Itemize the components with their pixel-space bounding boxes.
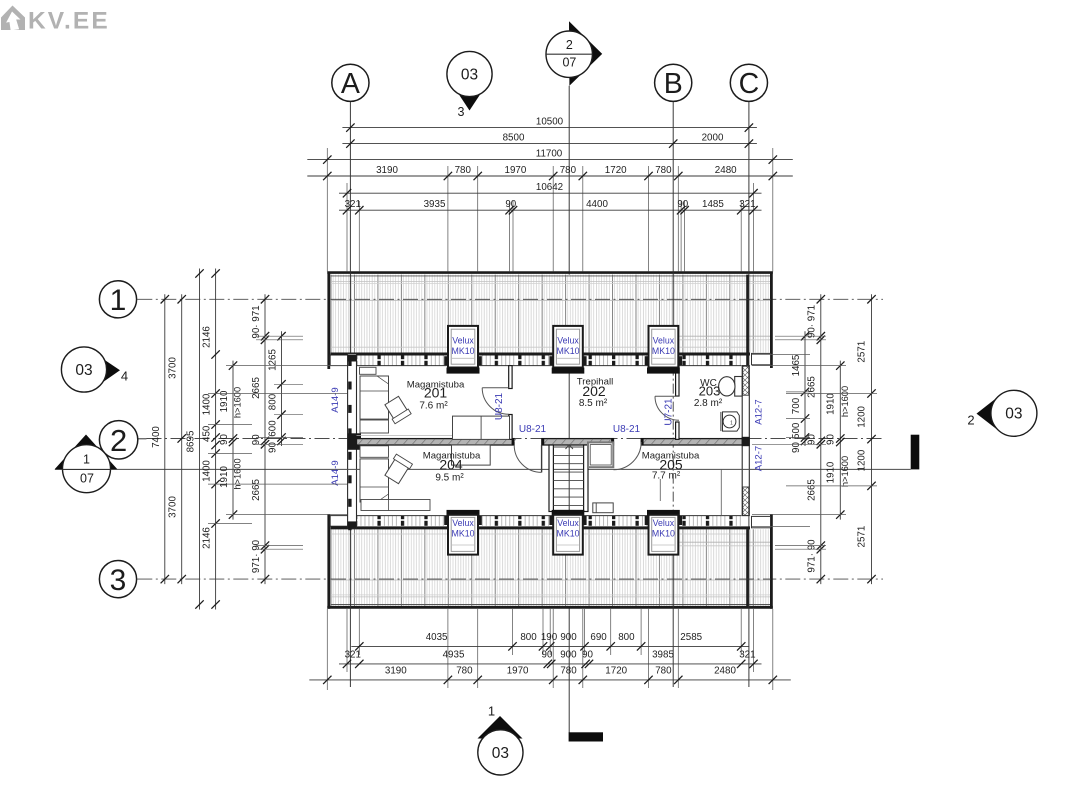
svg-text:3: 3 [110, 564, 127, 597]
right horizontal stubs [775, 335, 826, 337]
svg-text:1970: 1970 [505, 165, 527, 176]
svg-text:7.7 m²: 7.7 m² [652, 471, 681, 482]
svg-text:2571: 2571 [857, 341, 868, 363]
svg-text:690: 690 [590, 632, 607, 643]
svg-text:4935: 4935 [443, 650, 465, 661]
room201 desk [360, 420, 389, 433]
svg-text:90: 90 [268, 442, 279, 453]
grid row line 2 [147, 438, 884, 440]
svg-text:90· 971: 90· 971 [251, 305, 262, 338]
svg-text:204: 204 [439, 457, 463, 473]
svg-text:2571: 2571 [857, 526, 868, 548]
bottom roof band hatch [330, 529, 770, 606]
svg-text:8695: 8695 [186, 430, 197, 452]
left wall top/bottom junction blocks [348, 355, 357, 362]
svg-text:A14-9: A14-9 [330, 460, 341, 485]
left chain fine top [215, 269, 217, 610]
svg-text:780: 780 [655, 666, 672, 677]
svg-text:1400: 1400 [202, 393, 213, 415]
svg-text:Velux: Velux [452, 336, 474, 346]
svg-text:90· 971: 90· 971 [807, 305, 818, 338]
svg-text:780: 780 [655, 165, 672, 176]
grid row line 1 over band [331, 298, 771, 300]
svg-text:800: 800 [520, 632, 537, 643]
svg-text:2: 2 [967, 413, 974, 428]
svg-text:1: 1 [83, 453, 90, 467]
svg-text:3700: 3700 [168, 496, 179, 518]
middle wall hatch [358, 439, 363, 445]
svg-text:8500: 8500 [503, 132, 525, 143]
svg-text:1910: 1910 [219, 466, 230, 488]
svg-text:3190: 3190 [376, 165, 398, 176]
svg-text:10500: 10500 [536, 116, 564, 127]
svg-text:600: 600 [268, 420, 279, 437]
bottom band left edge [327, 514, 330, 609]
svg-text:1970: 1970 [507, 666, 529, 677]
svg-text:700: 700 [791, 397, 802, 414]
svg-text:4400: 4400 [586, 199, 608, 210]
grid bubble 1 [99, 281, 136, 318]
section line end bar right [911, 435, 920, 470]
svg-text:A12-7: A12-7 [754, 399, 765, 424]
svg-text:1400: 1400 [202, 460, 213, 482]
room204 bed right [452, 445, 491, 465]
svg-text:3: 3 [458, 105, 465, 119]
svg-text:90: 90 [505, 199, 516, 210]
svg-text:2665: 2665 [251, 479, 262, 501]
grid columns across bands [349, 272, 351, 366]
svg-text:7.6 m²: 7.6 m² [419, 400, 448, 411]
svg-text:1465: 1465 [791, 354, 802, 376]
svg-text:9.5 m²: 9.5 m² [435, 473, 464, 484]
svg-text:A14-9: A14-9 [330, 387, 341, 412]
svg-text:B: B [664, 68, 683, 100]
extension lines below building [326, 609, 328, 690]
svg-text:90: 90 [582, 650, 593, 661]
right chain 1465-700-500 [804, 331, 806, 446]
svg-text:U8-21: U8-21 [519, 424, 547, 435]
stair shaft left wall [549, 445, 553, 512]
dimension row 10642 [339, 192, 762, 194]
svg-text:C: C [739, 68, 760, 100]
bottom exterior wall stud row [351, 516, 741, 526]
svg-text:MK10: MK10 [452, 528, 475, 538]
svg-text:8.5 m²: 8.5 m² [579, 398, 608, 409]
dimension row 3190-780-1970-780-1720-780-2480 top [307, 175, 793, 177]
room204 bed left [360, 459, 389, 502]
velux jamb posts [444, 356, 448, 365]
top band horizontal lines [331, 281, 771, 283]
stair bottom black bar / velux head [553, 510, 582, 515]
grid row line 1 [137, 298, 883, 300]
grid bubble B [655, 64, 692, 101]
svg-text:3935: 3935 [424, 199, 446, 210]
svg-text:3985: 3985 [652, 650, 674, 661]
svg-text:Velux: Velux [557, 336, 579, 346]
svg-text:2585: 2585 [680, 632, 702, 643]
door room205 leaf and arc [614, 442, 642, 470]
room201 sofa right [453, 416, 510, 439]
bottom band bottom edge [327, 606, 773, 609]
svg-text:A12-7: A12-7 [754, 446, 765, 471]
svg-text:800: 800 [268, 393, 279, 410]
top band left edge [327, 272, 330, 370]
KV.EE watermark logo [1, 6, 108, 35]
svg-text:1485: 1485 [702, 199, 724, 210]
svg-text:321: 321 [739, 650, 755, 661]
svg-text:Velux: Velux [653, 518, 675, 528]
left chain 3700 3700 [181, 294, 183, 584]
svg-text:Velux: Velux [452, 518, 474, 528]
svg-text:1910: 1910 [826, 393, 837, 415]
svg-text:500: 500 [791, 422, 802, 439]
view marker 03 left (pin right) [98, 356, 120, 386]
grid row line 3 over band [331, 578, 771, 580]
top band corner eave box left [330, 355, 351, 366]
svg-text:2665: 2665 [807, 479, 818, 501]
svg-text:90: 90 [791, 442, 802, 453]
svg-text:203: 203 [699, 383, 721, 398]
dimension row 321-3935-90-4400-90-1485-321 top [339, 209, 762, 211]
door room201 leaf and arc [482, 388, 509, 415]
bottom band horizontal lines [331, 596, 771, 598]
svg-text:2665: 2665 [251, 377, 262, 399]
svg-text:90: 90 [826, 434, 837, 445]
stair up arrow [566, 445, 573, 449]
left chain 7400 [164, 294, 166, 584]
grid bubble A [332, 64, 369, 101]
svg-text:07: 07 [80, 472, 94, 486]
svg-text:2146: 2146 [202, 527, 213, 549]
svg-text:U8-21: U8-21 [613, 424, 641, 435]
grid column C line [748, 102, 750, 272]
svg-text:4: 4 [121, 369, 128, 384]
left chain 8695 [199, 269, 201, 610]
svg-text:07: 07 [562, 56, 576, 70]
svg-text:2665: 2665 [807, 376, 818, 398]
svg-text:2: 2 [566, 38, 573, 52]
svg-text:3190: 3190 [385, 666, 407, 677]
right wall crosshatch block top [743, 366, 749, 395]
dimension row 11700 [307, 159, 793, 161]
WC sink [723, 412, 740, 431]
top exterior wall stud row [351, 355, 741, 365]
dimension row 321-4935-90-900-90-3985-321 bottom [339, 663, 762, 665]
svg-text:Velux: Velux [653, 336, 675, 346]
svg-text:Velux: Velux [557, 518, 579, 528]
svg-text:7400: 7400 [151, 426, 162, 448]
svg-text:202: 202 [582, 383, 606, 399]
svg-text:4035: 4035 [426, 632, 448, 643]
svg-text:MK10: MK10 [557, 346, 580, 356]
svg-text:03: 03 [1005, 406, 1022, 423]
velux window bottom-left [447, 510, 480, 516]
middle wall [357, 439, 515, 445]
left interior wall [348, 354, 357, 528]
section marker 1-07 left (pin up) [55, 435, 118, 470]
door room204 leaf and arc [541, 445, 543, 472]
grid column B line [672, 102, 674, 272]
wall trepihall-WC [676, 366, 679, 396]
svg-text:U8-21: U8-21 [494, 392, 505, 420]
svg-text:03: 03 [75, 362, 92, 379]
svg-text:03: 03 [461, 66, 478, 83]
svg-text:03: 03 [492, 745, 509, 762]
svg-text:h>1600: h>1600 [233, 458, 243, 489]
view marker 03 top (pin down) [452, 84, 487, 111]
svg-text:800: 800 [618, 632, 635, 643]
right wall crosshatch block bottom [743, 487, 749, 515]
svg-text:MK10: MK10 [652, 528, 675, 538]
left horizontal stubs [256, 335, 303, 337]
grid row line 3 [137, 578, 883, 580]
view marker 2-07 top (pin right) [569, 21, 602, 86]
grid C wall in bottom band [746, 529, 748, 606]
grid C wall in band [746, 275, 748, 366]
right chain 2571-1200 [871, 294, 873, 584]
left wall junction block at middle wall [348, 433, 361, 450]
right wall junction block at middle wall [742, 437, 750, 446]
svg-text:2480: 2480 [715, 165, 737, 176]
room201 chair [384, 395, 412, 423]
offset line room201 [357, 435, 509, 437]
WC toilet [735, 377, 742, 397]
top band corner eave box right [752, 353, 771, 364]
left chain 1265-800-600 [281, 331, 283, 446]
velux window bottom-middle [552, 510, 585, 516]
bottom band corner eave box right [752, 516, 771, 527]
svg-text:321: 321 [345, 650, 361, 661]
svg-text:1: 1 [110, 284, 127, 317]
wall room201-202 [509, 366, 512, 389]
left chain 1910 [232, 361, 234, 520]
svg-text:11700: 11700 [536, 148, 563, 159]
svg-text:780: 780 [560, 666, 577, 677]
svg-text:780: 780 [560, 165, 577, 176]
svg-text:h>1600: h>1600 [840, 386, 850, 417]
room204 chair [384, 454, 413, 484]
svg-text:201: 201 [424, 385, 448, 401]
svg-text:90: 90 [219, 434, 230, 445]
svg-text:971· 90: 971· 90 [807, 539, 818, 573]
grid column A line [349, 102, 351, 272]
room204 desk [360, 446, 389, 458]
small box near bottom wall room205 [593, 503, 613, 513]
svg-text:h>1600: h>1600 [840, 456, 850, 487]
dimension row 10500 [342, 127, 757, 129]
stair treads [553, 446, 583, 448]
svg-text:A: A [341, 68, 360, 100]
right interior wall [742, 366, 749, 516]
grid bubble C [730, 64, 767, 101]
svg-text:MK10: MK10 [557, 528, 580, 538]
svg-text:MK10: MK10 [652, 346, 675, 356]
svg-text:MK10: MK10 [452, 346, 475, 356]
left chain 971-2665 [264, 294, 266, 584]
svg-text:1265: 1265 [268, 349, 279, 371]
slope line room205 vertical [720, 470, 722, 516]
svg-text:10642: 10642 [536, 182, 563, 193]
right chain 971-2665 right [820, 294, 822, 584]
stair shaft right wall [584, 445, 588, 512]
svg-text:900: 900 [560, 650, 577, 661]
svg-text:90: 90 [807, 434, 818, 445]
svg-text:321: 321 [345, 199, 361, 210]
velux window top-middle [553, 326, 583, 368]
grid bubble 2 [138, 438, 147, 440]
center axis line 2-07 [568, 86, 570, 733]
view marker 03 bottom (pin up) [478, 716, 523, 739]
svg-text:1910: 1910 [826, 461, 837, 483]
middle wall door jamb blocks [512, 438, 514, 445]
svg-text:3700: 3700 [168, 357, 179, 379]
svg-text:1200: 1200 [857, 449, 868, 471]
svg-text:U7-21: U7-21 [664, 398, 675, 426]
room204 dresser [361, 500, 430, 511]
room201 nightstand [360, 367, 377, 374]
view marker 03 right (pin left) [977, 396, 1000, 431]
svg-text:321: 321 [739, 199, 755, 210]
svg-text:2146: 2146 [202, 326, 213, 348]
bottom exterior wall thick line [330, 526, 750, 529]
svg-text:1200: 1200 [857, 405, 868, 427]
svg-text:2: 2 [110, 423, 127, 458]
svg-text:h>1600: h>1600 [233, 387, 243, 418]
svg-text:1720: 1720 [605, 666, 627, 677]
svg-text:1: 1 [730, 421, 733, 427]
top roof band hatch [330, 275, 770, 353]
svg-text:190: 190 [541, 632, 558, 643]
top band top edge [327, 271, 773, 274]
dimension row 4035-800-190-900-690-800-2585 bottom [351, 645, 749, 647]
section axis bottom end bar [569, 732, 603, 741]
svg-text:900: 900 [560, 632, 577, 643]
velux window top-right [649, 326, 679, 368]
bottom band right edge [770, 514, 773, 609]
extension lines above building [326, 148, 328, 272]
svg-text:KV.EE: KV.EE [28, 8, 108, 35]
svg-text:90: 90 [251, 434, 262, 445]
svg-text:1: 1 [488, 704, 495, 719]
dimension row 8500 2000 [342, 143, 757, 145]
svg-text:90: 90 [542, 650, 553, 661]
svg-text:2000: 2000 [702, 132, 724, 143]
bottom band corner eave box left [330, 516, 351, 527]
top band right edge [770, 272, 773, 369]
svg-text:971· 90: 971· 90 [251, 539, 262, 573]
top exterior wall thick line [330, 353, 750, 356]
svg-text:780: 780 [455, 165, 472, 176]
closet room205 [588, 442, 613, 467]
door WC leaf and arc [655, 395, 679, 397]
dimension row 3190-780-1970-780-1720-780-2480 bottom [309, 679, 791, 681]
section line 1-07 horizontal [55, 468, 911, 470]
svg-text:1720: 1720 [605, 165, 627, 176]
svg-text:2480: 2480 [714, 666, 736, 677]
svg-text:450: 450 [202, 425, 213, 442]
svg-text:780: 780 [456, 666, 473, 677]
velux window top-left [448, 326, 478, 368]
grid bubble 3 [99, 561, 136, 598]
svg-text:90: 90 [677, 199, 688, 210]
velux window bottom-right [647, 510, 680, 516]
right chain 1910 right [839, 361, 841, 520]
room201 bed left [360, 376, 389, 419]
svg-text:2.8 m²: 2.8 m² [694, 398, 723, 409]
